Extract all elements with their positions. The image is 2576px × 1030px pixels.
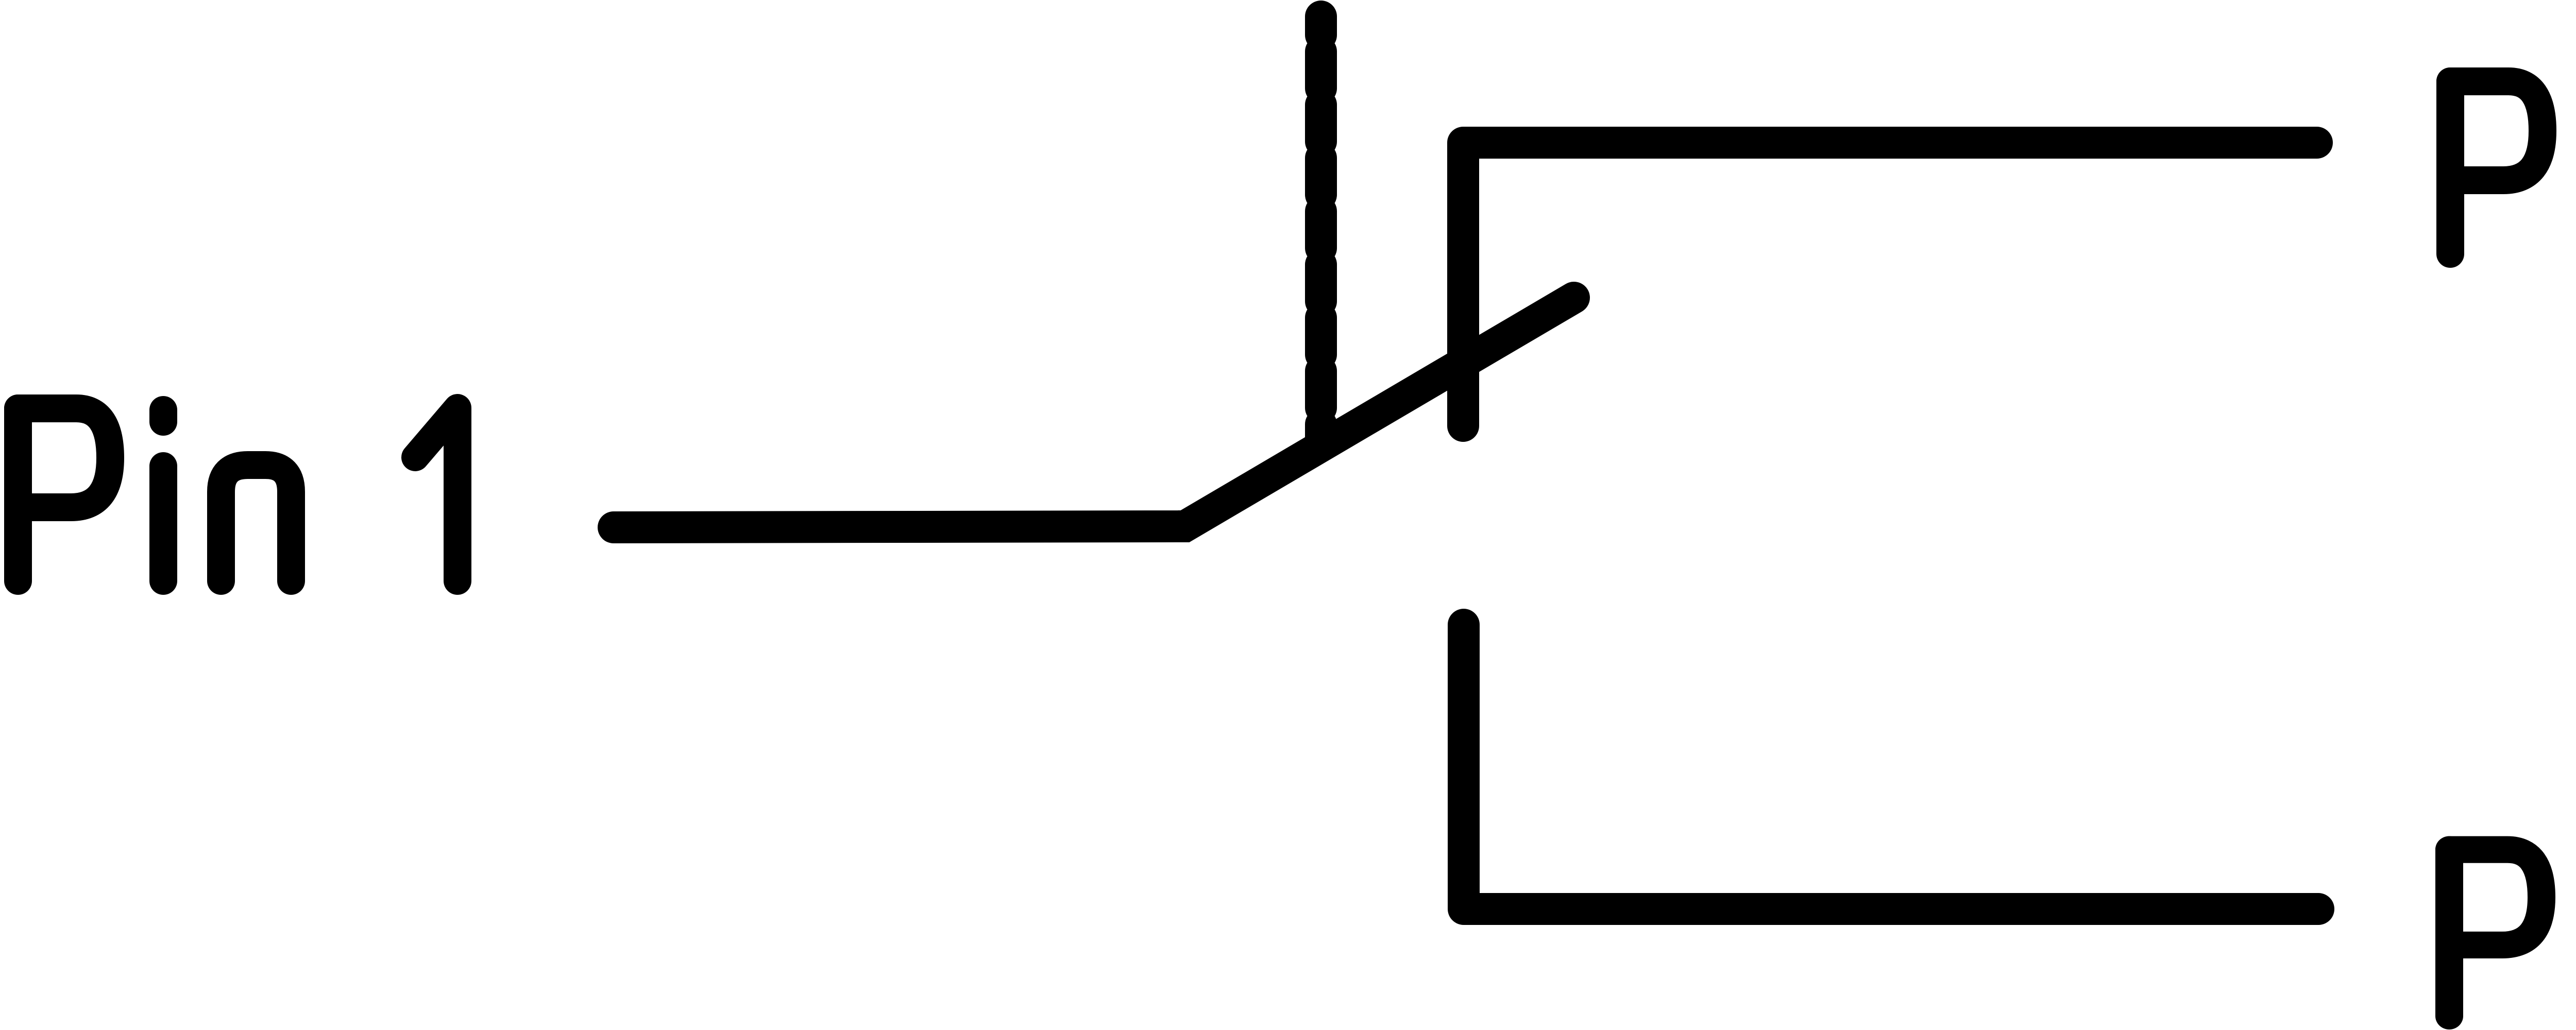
node Pin 1 label <box>18 408 457 581</box>
wire Pin 1 lead joining switch SW1 lever (pole thrown toward Pin 2) <box>614 298 1574 527</box>
wire Pin 2 lead <box>1463 143 2317 426</box>
node Pin 2 label <box>2450 81 2576 254</box>
wire Pin 4 lead <box>1464 625 2318 909</box>
node Pin 4 label <box>2449 850 2576 1016</box>
switch actuator (dashed drive line) <box>1305 16 1337 444</box>
